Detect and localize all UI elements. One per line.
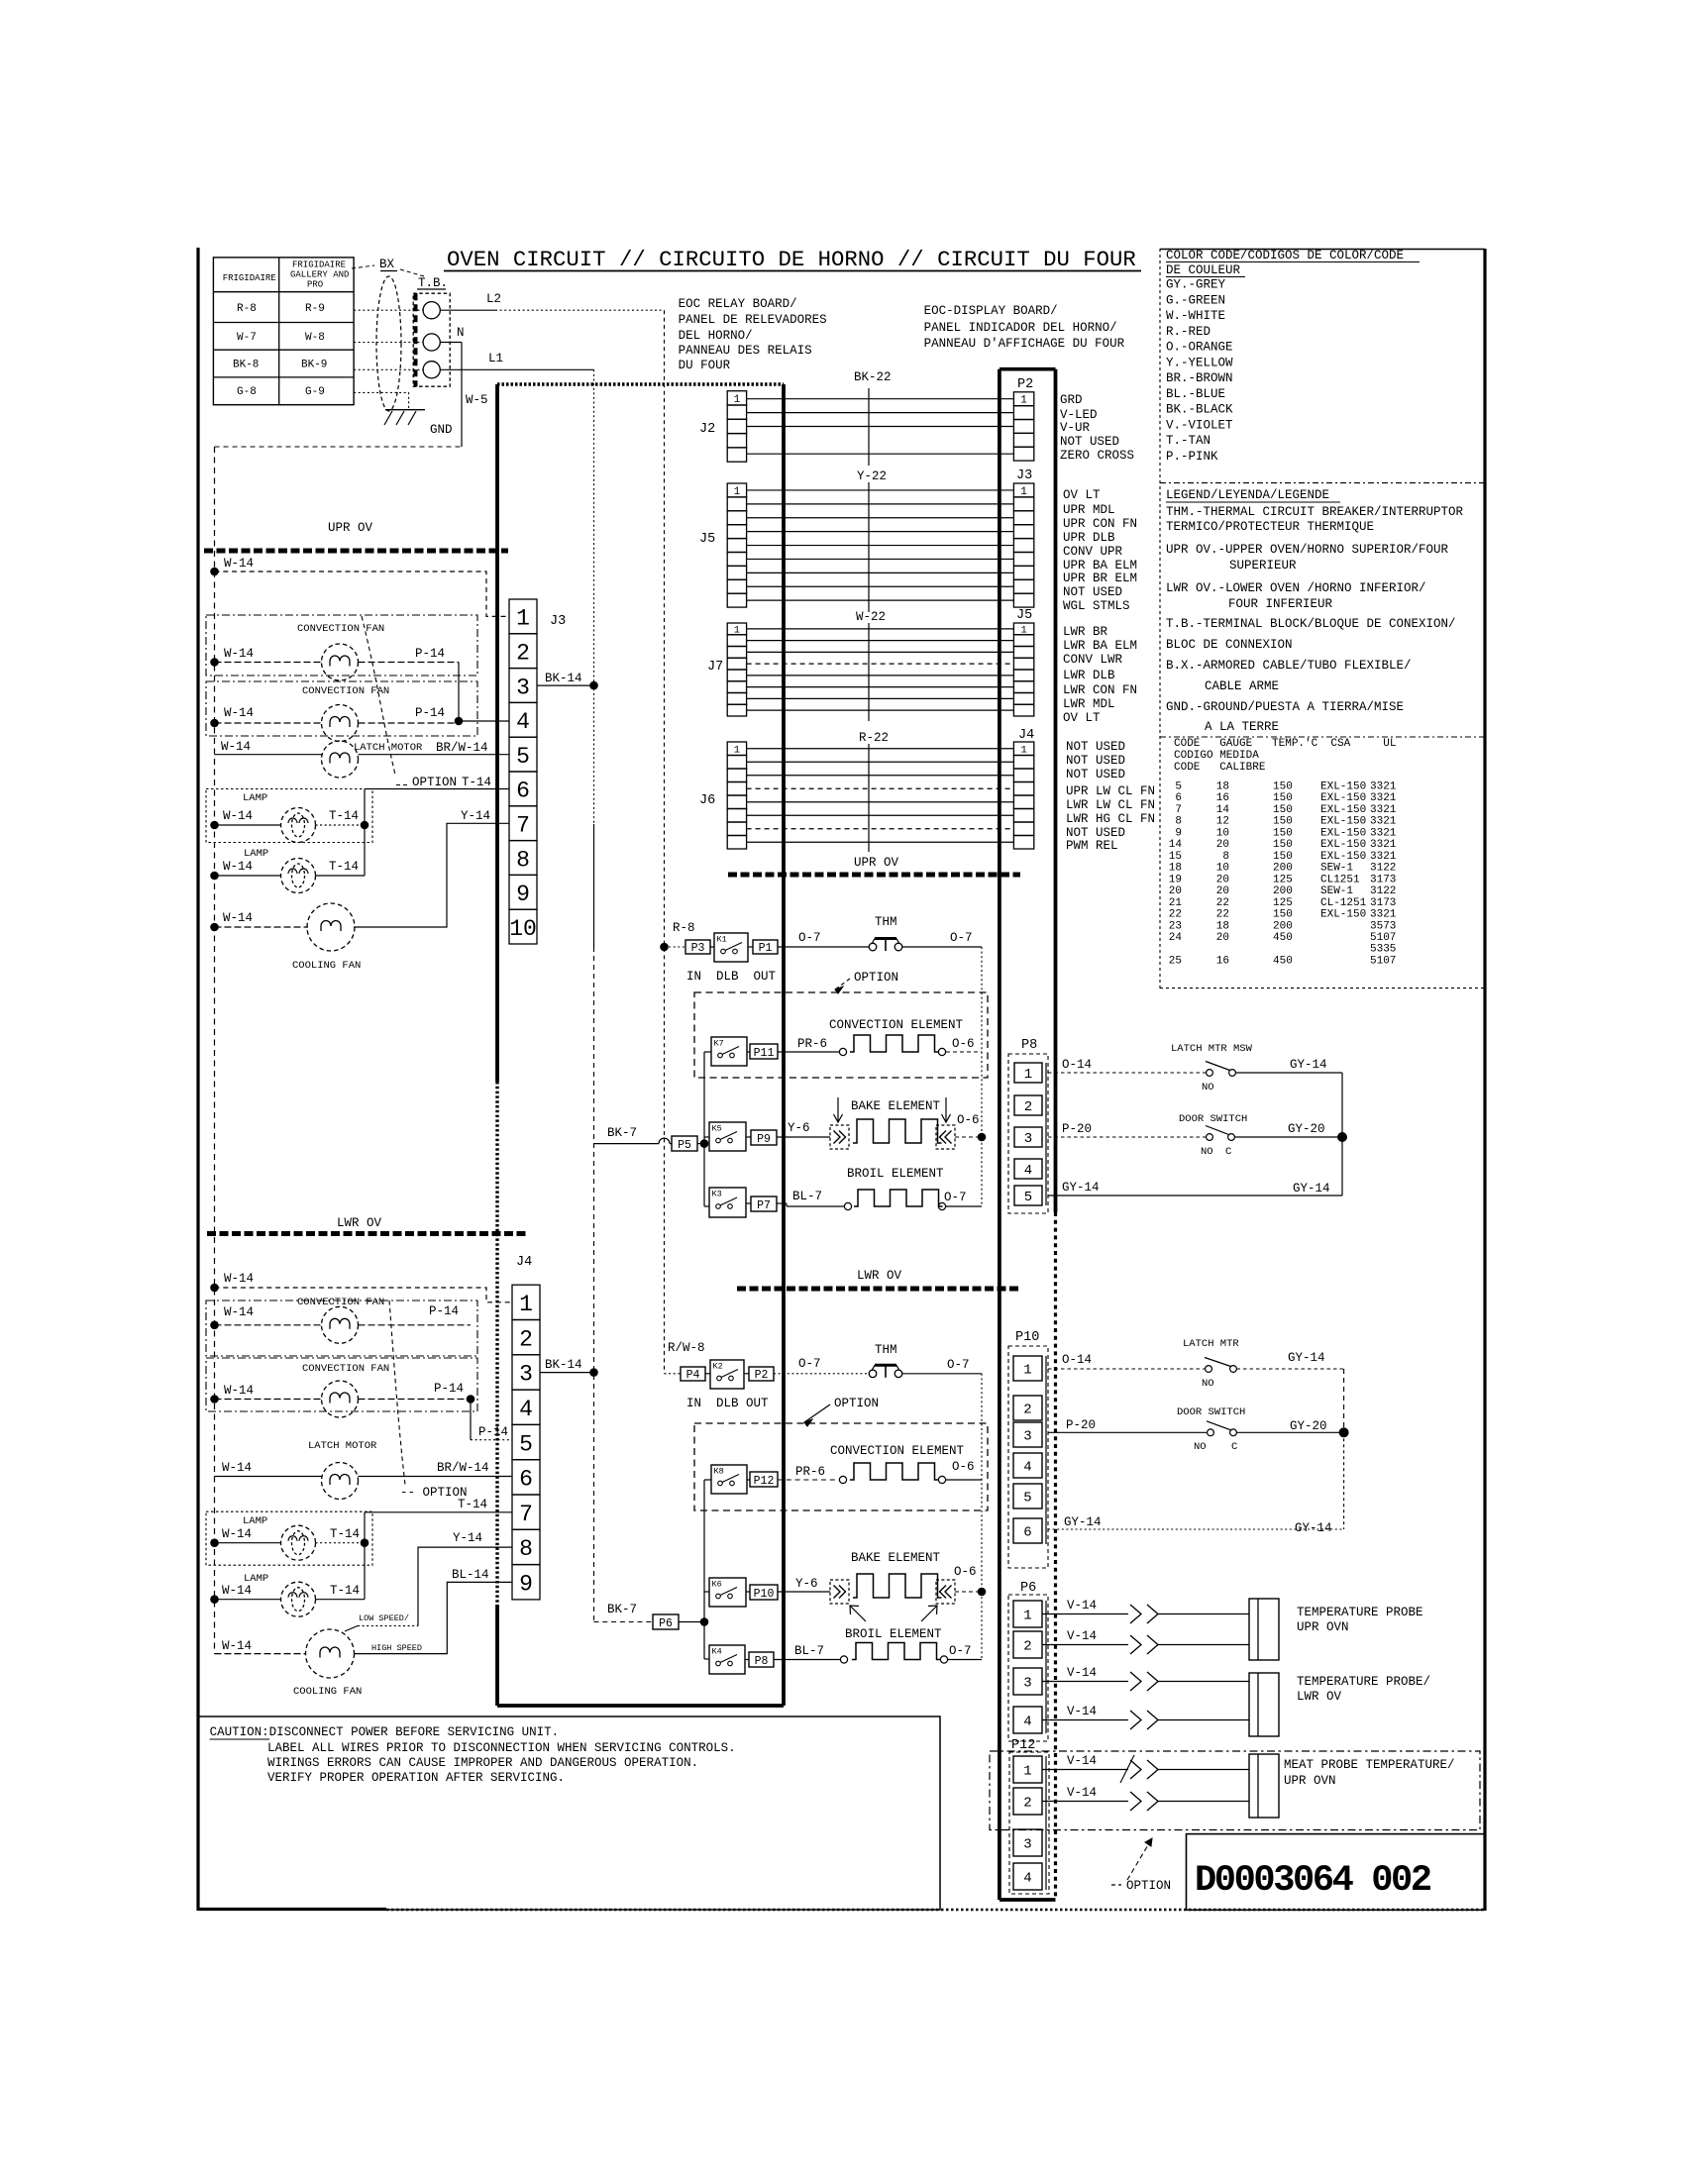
svg-text:20: 20 bbox=[1216, 874, 1229, 885]
svg-text:B.X.-ARMORED CABLE/TUBO FLEXIB: B.X.-ARMORED CABLE/TUBO FLEXIBLE/ bbox=[1166, 659, 1412, 673]
junction R-8 bbox=[660, 943, 669, 952]
svg-text:UPR OV.-UPPER OVEN/HORNO SUPER: UPR OV.-UPPER OVEN/HORNO SUPERIOR/FOUR bbox=[1166, 543, 1449, 557]
wire J2-1 to P2-1 bbox=[747, 398, 1014, 400]
svg-text:V-14: V-14 bbox=[1067, 1599, 1097, 1612]
svg-text:1: 1 bbox=[1023, 1609, 1031, 1624]
svg-text:BAKE ELEMENT: BAKE ELEMENT bbox=[851, 1099, 941, 1113]
label OPTION T-14 upper bbox=[396, 784, 407, 786]
convection fan 1 box bbox=[206, 615, 477, 676]
junction T-14 upper bbox=[361, 821, 369, 830]
svg-text:V-14: V-14 bbox=[1067, 1786, 1097, 1800]
svg-text:C: C bbox=[1225, 1146, 1231, 1158]
svg-text:UPR MDL: UPR MDL bbox=[1063, 503, 1115, 517]
wire J5-2 to J3-2 bbox=[747, 503, 1014, 505]
svg-text:14: 14 bbox=[1216, 804, 1230, 816]
svg-text:BK-8: BK-8 bbox=[233, 360, 259, 371]
svg-text:MEAT PROBE TEMPERATURE/: MEAT PROBE TEMPERATURE/ bbox=[1284, 1758, 1455, 1772]
wire P9 to bake element bbox=[777, 1136, 830, 1138]
svg-text:FRIGIDAIRE: FRIGIDAIRE bbox=[223, 273, 276, 283]
svg-text:UPR OV: UPR OV bbox=[854, 856, 899, 870]
broil element upper bbox=[844, 1202, 851, 1209]
wire G row to ground bbox=[354, 392, 409, 409]
wire fans to J4-5 bbox=[470, 1400, 472, 1440]
convection fan 1 motor lower bbox=[322, 1306, 359, 1343]
svg-text:BK-7: BK-7 bbox=[607, 1126, 637, 1140]
svg-text:T-14: T-14 bbox=[462, 776, 491, 789]
svg-text:GY-14: GY-14 bbox=[1062, 1181, 1100, 1195]
svg-text:T-14: T-14 bbox=[330, 1527, 360, 1541]
svg-text:EXL-150: EXL-150 bbox=[1320, 851, 1366, 863]
svg-text:V-LED: V-LED bbox=[1060, 408, 1098, 422]
svg-text:LWR OV.-LOWER OVEN /HORNO INFE: LWR OV.-LOWER OVEN /HORNO INFERIOR/ bbox=[1166, 581, 1426, 595]
svg-text:NO: NO bbox=[1194, 1441, 1207, 1453]
svg-text:PWM REL: PWM REL bbox=[1066, 839, 1118, 853]
svg-text:O-7: O-7 bbox=[944, 1191, 967, 1204]
legend divider 1 bbox=[1160, 482, 1485, 484]
svg-text:P2: P2 bbox=[1017, 377, 1033, 392]
junction BK-14 upper bbox=[589, 681, 598, 690]
svg-text:P-14: P-14 bbox=[415, 706, 445, 720]
svg-text:UPR LW CL FN: UPR LW CL FN bbox=[1066, 784, 1155, 798]
svg-text:O-6: O-6 bbox=[952, 1460, 975, 1474]
svg-text:6: 6 bbox=[1175, 792, 1182, 804]
wire latch switch to bus upper bbox=[1236, 1072, 1343, 1074]
page border left bbox=[196, 248, 199, 1911]
svg-text:CONVECTION FAN: CONVECTION FAN bbox=[302, 1363, 389, 1375]
svg-text:UPR OV: UPR OV bbox=[328, 521, 373, 535]
convection element upper bbox=[839, 1048, 846, 1055]
bake element terminal lower left bbox=[830, 1580, 849, 1604]
bake element terminal upper right bbox=[936, 1125, 955, 1149]
svg-text:1: 1 bbox=[516, 606, 530, 632]
wire convection element to bus upper bbox=[946, 1051, 982, 1053]
wire lamp2 to junction upper bbox=[316, 875, 366, 877]
svg-text:P7: P7 bbox=[757, 1199, 771, 1212]
svg-text:CONV UPR: CONV UPR bbox=[1063, 545, 1123, 559]
svg-text:O-6: O-6 bbox=[954, 1565, 977, 1579]
junction W cooling upper bbox=[210, 923, 219, 932]
wire W row to N bbox=[354, 342, 423, 344]
svg-text:1: 1 bbox=[1023, 1363, 1031, 1379]
wire P12-1 to meat probe bbox=[1042, 1769, 1128, 1771]
svg-text:10: 10 bbox=[1216, 863, 1229, 875]
junction fans bbox=[455, 717, 464, 726]
svg-text:BROIL ELEMENT: BROIL ELEMENT bbox=[845, 1627, 942, 1641]
svg-text:LATCH MOTOR: LATCH MOTOR bbox=[354, 742, 423, 754]
svg-text:J3: J3 bbox=[550, 614, 566, 629]
wire W to fan1 lower bbox=[215, 1324, 322, 1326]
wire Y-14 cooling to J3-7 bbox=[354, 823, 509, 927]
svg-text:NOT USED: NOT USED bbox=[1066, 740, 1125, 754]
svg-text:BX: BX bbox=[379, 258, 395, 271]
svg-text:25: 25 bbox=[1169, 955, 1182, 967]
svg-text:5: 5 bbox=[1024, 1190, 1032, 1205]
option dashed curve lower bbox=[389, 1300, 405, 1485]
svg-text:J4: J4 bbox=[1018, 728, 1034, 743]
wire BK-14 J4-3 to bus bbox=[540, 1372, 594, 1374]
wire J7-6 to J5-6 bbox=[747, 686, 1014, 688]
svg-text:GALLERY AND: GALLERY AND bbox=[290, 270, 349, 280]
junction W bus fan2 bbox=[210, 719, 219, 728]
svg-text:UPR BA ELM: UPR BA ELM bbox=[1063, 559, 1137, 572]
svg-text:8: 8 bbox=[1175, 816, 1182, 828]
svg-text:NOT USED: NOT USED bbox=[1066, 768, 1125, 781]
wire lamp1 to junction lower bbox=[316, 1542, 366, 1544]
svg-text:BLOC DE CONNEXION: BLOC DE CONNEXION bbox=[1166, 638, 1293, 652]
lamp 1 box lower bbox=[206, 1511, 372, 1565]
svg-text:J5: J5 bbox=[1016, 608, 1032, 623]
svg-text:P-14: P-14 bbox=[478, 1425, 508, 1439]
svg-text:22: 22 bbox=[1216, 909, 1229, 921]
plug P2 relay bbox=[749, 1367, 774, 1381]
svg-text:3122: 3122 bbox=[1370, 885, 1396, 897]
wire fan2 output to J3-4 bbox=[359, 722, 460, 724]
svg-text:CL1251: CL1251 bbox=[1320, 874, 1360, 885]
svg-text:10: 10 bbox=[1216, 827, 1229, 839]
svg-text:LWR LW CL FN: LWR LW CL FN bbox=[1066, 798, 1155, 812]
wire P12 to convection element lower bbox=[778, 1479, 839, 1481]
connector J3 (display board) bbox=[1013, 483, 1033, 497]
wire J7-7 to J5-7 bbox=[747, 697, 1014, 699]
svg-text:150: 150 bbox=[1273, 909, 1293, 921]
wire R-8 to P3 bbox=[665, 946, 686, 948]
svg-text:O-7: O-7 bbox=[798, 1357, 821, 1371]
svg-text:6: 6 bbox=[519, 1467, 533, 1493]
wire THM to bus upper bbox=[902, 946, 982, 948]
svg-text:LWR OV: LWR OV bbox=[337, 1216, 382, 1230]
wire W to lamp1 upper bbox=[215, 824, 281, 826]
divider LWR OV left bbox=[207, 1231, 526, 1236]
svg-text:T-14: T-14 bbox=[329, 809, 359, 823]
svg-text:20: 20 bbox=[1216, 885, 1229, 897]
bake element upper bbox=[853, 1119, 942, 1143]
svg-text:9: 9 bbox=[516, 882, 530, 907]
svg-text:3321: 3321 bbox=[1370, 827, 1397, 839]
svg-text:C: C bbox=[1231, 1441, 1237, 1453]
svg-text:DOOR SWITCH: DOOR SWITCH bbox=[1179, 1113, 1247, 1125]
svg-text:NO: NO bbox=[1201, 1146, 1213, 1158]
wire P6-1 to probe bbox=[1042, 1613, 1128, 1615]
svg-text:OPTION: OPTION bbox=[834, 1397, 879, 1410]
svg-text:O-7: O-7 bbox=[798, 931, 821, 945]
svg-text:G-9: G-9 bbox=[305, 386, 325, 398]
svg-text:SEW-1: SEW-1 bbox=[1320, 885, 1353, 897]
svg-text:R-8: R-8 bbox=[237, 303, 257, 315]
svg-text:J6: J6 bbox=[699, 793, 715, 808]
svg-text:OVEN CIRCUIT // CIRCUITO DE HO: OVEN CIRCUIT // CIRCUITO DE HORNO // CIR… bbox=[447, 247, 1136, 272]
wire P10-3 to door switch bbox=[1048, 1431, 1207, 1433]
svg-text:G-8: G-8 bbox=[237, 386, 257, 398]
svg-text:OPTION: OPTION bbox=[854, 971, 898, 985]
relay K3 bbox=[709, 1188, 746, 1217]
cooling fan lower bbox=[306, 1629, 355, 1678]
svg-text:THM: THM bbox=[875, 915, 897, 929]
svg-text:OPTION: OPTION bbox=[1126, 1879, 1171, 1893]
junction W lamp1 lower bbox=[210, 1538, 219, 1547]
svg-text:3321: 3321 bbox=[1370, 781, 1397, 793]
relay K8 bbox=[711, 1465, 747, 1494]
svg-text:BK-7: BK-7 bbox=[607, 1603, 637, 1616]
connector J7 (relay board) bbox=[727, 623, 746, 635]
svg-text:GY-20: GY-20 bbox=[1290, 1419, 1327, 1433]
svg-text:GY-14: GY-14 bbox=[1290, 1058, 1327, 1072]
svg-text:W-14: W-14 bbox=[222, 1584, 252, 1598]
svg-text:J4: J4 bbox=[516, 1255, 532, 1270]
svg-text:PR-6: PR-6 bbox=[797, 1037, 827, 1051]
wire THM to bus lower bbox=[902, 1373, 982, 1375]
svg-text:1: 1 bbox=[1020, 745, 1026, 757]
connector J3 (relay board left) bbox=[509, 599, 537, 634]
svg-text:P.-PINK: P.-PINK bbox=[1166, 450, 1218, 464]
wire J7-5 to J5-5 bbox=[747, 675, 1014, 676]
svg-text:CONVECTION FAN: CONVECTION FAN bbox=[302, 685, 389, 697]
wire J6-3 to J4-3 bbox=[747, 775, 1014, 777]
svg-text:3: 3 bbox=[1023, 1429, 1031, 1445]
legend divider 2 bbox=[1160, 736, 1485, 738]
svg-text:2: 2 bbox=[1023, 1796, 1031, 1812]
svg-text:EXL-150: EXL-150 bbox=[1320, 816, 1366, 828]
terminal block T.B. bbox=[413, 293, 450, 386]
svg-text:4: 4 bbox=[516, 709, 530, 735]
svg-text:3: 3 bbox=[1024, 1131, 1032, 1147]
svg-text:LWR OV: LWR OV bbox=[857, 1269, 902, 1283]
relay K5 bbox=[709, 1122, 746, 1151]
svg-text:5: 5 bbox=[1175, 781, 1182, 793]
svg-text:LATCH MOTOR: LATCH MOTOR bbox=[308, 1440, 377, 1452]
svg-text:14: 14 bbox=[1169, 839, 1183, 851]
divider UPR OV left bbox=[204, 549, 508, 554]
caution box bbox=[198, 1716, 940, 1910]
terminal L2 bbox=[423, 302, 440, 319]
svg-text:1: 1 bbox=[734, 394, 741, 406]
svg-text:3173: 3173 bbox=[1370, 897, 1396, 909]
svg-text:2: 2 bbox=[1023, 1639, 1031, 1655]
svg-text:GY-14: GY-14 bbox=[1288, 1351, 1325, 1365]
svg-text:10: 10 bbox=[509, 916, 537, 942]
svg-text:EXL-150: EXL-150 bbox=[1320, 781, 1366, 793]
svg-text:P9: P9 bbox=[757, 1133, 771, 1146]
svg-text:2: 2 bbox=[516, 640, 530, 666]
wire convection element to bus lower bbox=[946, 1479, 982, 1481]
svg-text:P5: P5 bbox=[678, 1139, 691, 1152]
svg-text:BR/W-14: BR/W-14 bbox=[437, 1461, 489, 1475]
EOC relay board outline bbox=[497, 382, 784, 386]
junction BK-14 lower bbox=[589, 1368, 598, 1377]
svg-text:P-14: P-14 bbox=[429, 1304, 459, 1318]
wire W to fan1 bbox=[215, 662, 322, 664]
wire BK-7 to P5 bbox=[594, 1143, 660, 1145]
svg-text:CONVECTION ELEMENT: CONVECTION ELEMENT bbox=[829, 1018, 964, 1032]
connector J4 (relay board left) bbox=[512, 1285, 540, 1319]
bake element terminal lower right bbox=[936, 1580, 955, 1604]
legend panel border bbox=[1159, 249, 1161, 988]
svg-text:BL-7: BL-7 bbox=[792, 1190, 822, 1203]
svg-text:150: 150 bbox=[1273, 792, 1293, 804]
convection fan 2 box bbox=[206, 681, 477, 736]
plug P7 bbox=[751, 1196, 777, 1211]
svg-text:FOUR INFERIEUR: FOUR INFERIEUR bbox=[1228, 597, 1333, 611]
svg-text:150: 150 bbox=[1273, 839, 1293, 851]
wire P10-6 return bbox=[1048, 1528, 1344, 1530]
svg-text:LOW SPEED/: LOW SPEED/ bbox=[359, 1613, 409, 1623]
wire bake to bus upper bbox=[955, 1136, 982, 1138]
svg-text:6: 6 bbox=[516, 779, 530, 804]
cooling fan upper bbox=[307, 903, 355, 951]
broil element lower bbox=[840, 1656, 847, 1663]
wire P10 to bake element lower bbox=[778, 1591, 830, 1593]
wire J2-2 to P2-2 bbox=[747, 412, 1014, 414]
divider LWR OV middle bbox=[737, 1287, 1020, 1292]
cable BK-22 tick bbox=[868, 388, 870, 466]
svg-text:EXL-150: EXL-150 bbox=[1320, 909, 1366, 921]
bus 991 lower bbox=[981, 1374, 983, 1660]
latch motor upper bbox=[322, 741, 359, 778]
svg-text:O-14: O-14 bbox=[1062, 1058, 1092, 1072]
ground GND bbox=[385, 409, 425, 411]
svg-text:5335: 5335 bbox=[1370, 944, 1396, 956]
plug P4 bbox=[681, 1367, 705, 1381]
svg-text:W-7: W-7 bbox=[237, 332, 257, 344]
svg-text:4: 4 bbox=[1024, 1163, 1032, 1179]
svg-text:3573: 3573 bbox=[1370, 920, 1396, 932]
svg-text:W-14: W-14 bbox=[224, 706, 254, 720]
svg-text:7: 7 bbox=[1175, 804, 1182, 816]
svg-text:18: 18 bbox=[1216, 781, 1229, 793]
wire P8-5 return bbox=[1048, 1195, 1342, 1196]
svg-text:CONVECTION ELEMENT: CONVECTION ELEMENT bbox=[830, 1444, 965, 1458]
legend bottom border bbox=[1160, 988, 1485, 989]
svg-text:P4: P4 bbox=[686, 1369, 700, 1382]
svg-text:DE COULEUR: DE COULEUR bbox=[1166, 263, 1241, 277]
wire J7-8 to J5-8 bbox=[747, 709, 1014, 711]
svg-text:A LA TERRE: A LA TERRE bbox=[1205, 720, 1279, 734]
svg-text:BL.-BLUE: BL.-BLUE bbox=[1166, 387, 1225, 401]
svg-text:3321: 3321 bbox=[1370, 816, 1397, 828]
svg-text:UPR CON FN: UPR CON FN bbox=[1063, 517, 1137, 531]
svg-text:T-14: T-14 bbox=[458, 1498, 487, 1511]
option box upper bbox=[694, 992, 988, 1078]
wire W to cooling fan lower bbox=[215, 1653, 306, 1655]
svg-text:J7: J7 bbox=[707, 660, 723, 675]
svg-text:12: 12 bbox=[1216, 816, 1229, 828]
svg-text:K8: K8 bbox=[714, 1467, 724, 1477]
svg-text:150: 150 bbox=[1273, 804, 1293, 816]
wire L2 vertical feed bbox=[664, 310, 666, 1374]
svg-text:K7: K7 bbox=[714, 1039, 724, 1049]
page border right bbox=[1483, 249, 1486, 1911]
svg-text:W-14: W-14 bbox=[224, 1272, 254, 1286]
wire fan2 output lower bbox=[359, 1399, 472, 1401]
wire J6-5 to J4-5 bbox=[747, 801, 1014, 803]
svg-text:T.B.-TERMINAL BLOCK/BLOQUE DE: T.B.-TERMINAL BLOCK/BLOQUE DE CONEXION/ bbox=[1166, 617, 1456, 631]
svg-text:21: 21 bbox=[1169, 897, 1183, 909]
latch motor micro switch upper bbox=[1207, 1070, 1213, 1077]
svg-text:O-7: O-7 bbox=[947, 1358, 970, 1372]
svg-text:150: 150 bbox=[1273, 816, 1293, 828]
svg-text:P-20: P-20 bbox=[1062, 1122, 1092, 1136]
svg-text:J2: J2 bbox=[699, 422, 715, 437]
junction T-14 lower bbox=[361, 1538, 369, 1547]
svg-text:D0003064 002: D0003064 002 bbox=[1195, 1860, 1431, 1902]
svg-text:CONVECTION FAN: CONVECTION FAN bbox=[297, 1297, 384, 1308]
svg-text:P1: P1 bbox=[759, 942, 773, 955]
svg-text:THM: THM bbox=[875, 1343, 897, 1357]
wire door switch to bus upper bbox=[1235, 1136, 1343, 1138]
terminal L1 bbox=[423, 362, 440, 378]
svg-text:NOT USED: NOT USED bbox=[1066, 826, 1125, 840]
svg-text:R-9: R-9 bbox=[305, 303, 325, 315]
wire J5-1 to J3-1 bbox=[747, 489, 1014, 491]
svg-text:COLOR CODE/CODIGOS DE COLOR/CO: COLOR CODE/CODIGOS DE COLOR/CODE bbox=[1166, 249, 1404, 262]
wire fan1 output lower bbox=[359, 1324, 472, 1326]
wire lamp2 to junction lower bbox=[316, 1599, 366, 1601]
plug P11 bbox=[750, 1044, 778, 1059]
part number box bbox=[1187, 1834, 1485, 1911]
svg-text:16: 16 bbox=[1216, 792, 1229, 804]
svg-text:1: 1 bbox=[1020, 395, 1027, 407]
svg-text:4: 4 bbox=[1023, 1871, 1031, 1887]
svg-text:BK-14: BK-14 bbox=[545, 1358, 582, 1372]
wire high speed to J4-9 bbox=[354, 1582, 512, 1653]
svg-text:3321: 3321 bbox=[1370, 909, 1397, 921]
wire J5-7 to J3-7 bbox=[747, 572, 1014, 573]
wire J6-4 to J4-4 bbox=[747, 787, 1014, 789]
svg-text:125: 125 bbox=[1273, 897, 1293, 909]
svg-text:P10: P10 bbox=[1015, 1330, 1039, 1345]
svg-text:ZERO CROSS: ZERO CROSS bbox=[1060, 449, 1134, 463]
junction bake bus lower bbox=[978, 1588, 987, 1597]
svg-text:K1: K1 bbox=[717, 935, 727, 945]
cable Y-22 tick bbox=[868, 482, 870, 612]
svg-text:Y-14: Y-14 bbox=[461, 809, 490, 823]
svg-text:Y-6: Y-6 bbox=[788, 1121, 810, 1135]
wire T-14 to J4-7 bbox=[365, 1511, 512, 1513]
svg-text:V-14: V-14 bbox=[1067, 1666, 1097, 1680]
wire J5-5 to J3-5 bbox=[747, 545, 1014, 547]
wire BK-7 to P6 bbox=[594, 1621, 654, 1623]
svg-text:THM.-THERMAL CIRCUIT BREAKER/I: THM.-THERMAL CIRCUIT BREAKER/INTERRUPTOR bbox=[1166, 505, 1464, 519]
svg-text:K6: K6 bbox=[712, 1580, 722, 1590]
svg-text:8: 8 bbox=[516, 847, 530, 873]
wire L2 bbox=[440, 309, 495, 311]
wire W-14 to J3-1 bbox=[215, 572, 510, 616]
svg-text:DOOR SWITCH: DOOR SWITCH bbox=[1177, 1406, 1245, 1418]
wire P8-1 to latch switch bbox=[1048, 1072, 1206, 1074]
wire W to cooling fan upper bbox=[215, 926, 309, 928]
svg-text:PRO: PRO bbox=[307, 280, 323, 290]
wire L1 vertical bus bbox=[593, 369, 595, 824]
relay K7 bbox=[711, 1037, 747, 1066]
wire W-5 from N bbox=[440, 342, 462, 344]
junction W bus fan1 lower bbox=[210, 1321, 219, 1330]
svg-text:BL-7: BL-7 bbox=[794, 1644, 824, 1658]
wire W to latch motor lower bbox=[215, 1476, 322, 1478]
svg-text:T-14: T-14 bbox=[329, 860, 359, 874]
wire P11 to convection element bbox=[778, 1051, 839, 1053]
option box lower bbox=[694, 1423, 988, 1510]
relay K1 bbox=[714, 933, 748, 962]
svg-text:LABEL ALL WIRES PRIOR TO DISCO: LABEL ALL WIRES PRIOR TO DISCONNECTION W… bbox=[267, 1741, 736, 1755]
svg-text:P-20: P-20 bbox=[1066, 1418, 1096, 1432]
svg-text:19: 19 bbox=[1169, 874, 1182, 885]
svg-text:W-14: W-14 bbox=[224, 1305, 254, 1319]
svg-text:EXL-150: EXL-150 bbox=[1320, 804, 1366, 816]
wire W to lamp1 lower bbox=[215, 1542, 281, 1544]
wire T-14 to J3-6 bbox=[365, 788, 509, 790]
svg-text:P3: P3 bbox=[691, 942, 705, 955]
wire R/W-8 to P4 bbox=[665, 1373, 682, 1375]
svg-text:GY-14: GY-14 bbox=[1064, 1515, 1102, 1529]
